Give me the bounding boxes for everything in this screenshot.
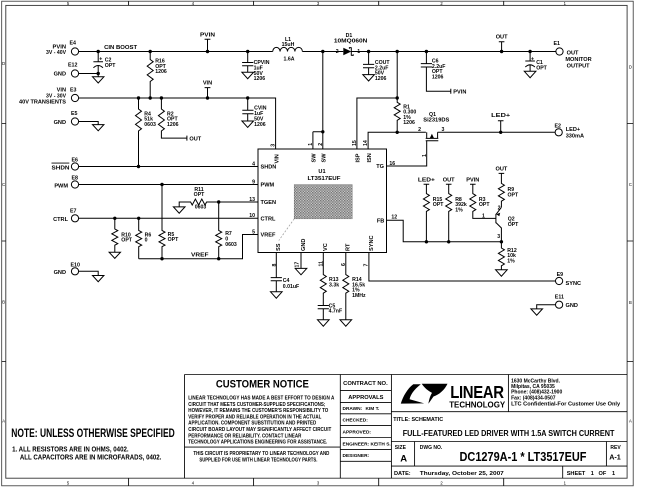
svg-text:PVIN: PVIN bbox=[466, 178, 479, 184]
capacitor C1 bbox=[524, 52, 547, 78]
connector E1 bbox=[554, 41, 592, 69]
svg-text:1206: 1206 bbox=[167, 122, 179, 128]
svg-text:PVIN: PVIN bbox=[200, 32, 215, 38]
node junction R16 bottom bbox=[149, 96, 152, 99]
node junction C6 bbox=[425, 50, 428, 53]
svg-text:GND: GND bbox=[54, 120, 66, 126]
svg-text:CTRL: CTRL bbox=[53, 217, 68, 223]
svg-text:TECHNOLOGY APPLICATIONS ENGINE: TECHNOLOGY APPLICATIONS ENGINEERING FOR … bbox=[188, 440, 328, 446]
svg-text:DRAWN:: DRAWN: bbox=[343, 406, 363, 412]
resistor R11 bbox=[173, 187, 218, 213]
wire VIN rail bbox=[79, 98, 276, 149]
svg-text:HOWEVER, IT REMAINS THE CUSTOM: HOWEVER, IT REMAINS THE CUSTOMER'S RESPO… bbox=[188, 408, 328, 414]
svg-text:LED+: LED+ bbox=[491, 113, 511, 119]
svg-text:SS: SS bbox=[276, 243, 282, 251]
svg-text:OPT: OPT bbox=[194, 192, 205, 198]
flag OUT top bbox=[496, 34, 508, 51]
wire ISN bbox=[368, 132, 426, 149]
op-amp U1 LT3517EUF body bbox=[258, 149, 387, 253]
svg-text:OUTPUT: OUTPUT bbox=[567, 64, 591, 70]
svg-text:A: A bbox=[400, 454, 407, 465]
svg-text:Fax: (408)434-0507: Fax: (408)434-0507 bbox=[511, 395, 556, 401]
wire SYNC bbox=[369, 253, 556, 282]
svg-text:+: + bbox=[531, 56, 534, 62]
inductor L1 bbox=[273, 37, 303, 62]
svg-text:3: 3 bbox=[271, 144, 277, 147]
svg-text:DC1279A-1 * LT3517EUF: DC1279A-1 * LT3517EUF bbox=[460, 449, 587, 464]
svg-text:LED+: LED+ bbox=[418, 178, 436, 184]
transistor Q1 Si2319DS bbox=[387, 112, 450, 166]
svg-text:E11: E11 bbox=[555, 294, 564, 300]
svg-text:1206: 1206 bbox=[432, 74, 444, 80]
svg-text:1.6A: 1.6A bbox=[284, 56, 295, 62]
svg-text:5: 5 bbox=[252, 229, 255, 235]
svg-text:E2: E2 bbox=[555, 123, 562, 129]
svg-text:1MHz: 1MHz bbox=[352, 293, 366, 299]
node junction CPVIN bbox=[246, 50, 249, 53]
capacitor C5 bbox=[318, 303, 343, 326]
svg-text:THIS CIRCUIT IS PROPRIETARY TO: THIS CIRCUIT IS PROPRIETARY TO LINEAR TE… bbox=[193, 451, 329, 457]
svg-text:DESIGNER:: DESIGNER: bbox=[343, 453, 370, 459]
wire SHDN bbox=[79, 166, 258, 168]
resistor R2 bbox=[158, 98, 201, 142]
node junction ISN/R1 bbox=[396, 131, 399, 134]
svg-text:3.3k: 3.3k bbox=[329, 282, 339, 288]
svg-text:SYNC: SYNC bbox=[566, 281, 582, 287]
wire SW node bbox=[313, 52, 323, 150]
wire TGEN bbox=[219, 201, 258, 203]
node junction R16 bbox=[149, 50, 152, 53]
node junction R15/FB bbox=[425, 240, 428, 243]
connector E9 bbox=[556, 272, 582, 287]
svg-text:1206: 1206 bbox=[403, 120, 415, 126]
svg-text:E9: E9 bbox=[557, 272, 564, 278]
svg-text:40V TRANSIENTS: 40V TRANSIENTS bbox=[19, 100, 67, 106]
svg-text:0603: 0603 bbox=[195, 205, 207, 211]
connector E12 bbox=[54, 63, 79, 78]
resistor R1 bbox=[394, 52, 416, 133]
connector E11 bbox=[555, 294, 578, 309]
wire E11 to ground bbox=[531, 305, 556, 315]
svg-text:CTRL: CTRL bbox=[261, 216, 276, 222]
svg-text:B: B bbox=[2, 300, 5, 305]
svg-text:SHDN: SHDN bbox=[261, 165, 277, 171]
svg-text:MONITOR: MONITOR bbox=[565, 57, 591, 63]
svg-text:C: C bbox=[629, 182, 632, 187]
svg-text:E4: E4 bbox=[70, 41, 77, 47]
svg-text:OPT: OPT bbox=[168, 237, 179, 243]
connector E5 bbox=[54, 111, 79, 126]
svg-text:U1: U1 bbox=[318, 169, 325, 175]
wire E10 to ground bbox=[79, 271, 104, 281]
node junction Q2/R12/FB bbox=[500, 240, 503, 243]
node junction SW bbox=[321, 130, 324, 133]
wire VREF net bbox=[139, 235, 258, 259]
svg-text:4.7nF: 4.7nF bbox=[329, 309, 343, 315]
svg-text:8: 8 bbox=[272, 264, 278, 267]
svg-text:A-1: A-1 bbox=[609, 452, 621, 461]
node junction R11/TGEN bbox=[217, 200, 220, 203]
svg-text:CIRCUIT THAT MEETS CUSTOMER-SU: CIRCUIT THAT MEETS CUSTOMER-SUPPLIED SPE… bbox=[188, 402, 325, 408]
contract / approvals column bbox=[340, 381, 391, 461]
node junction C1 bbox=[528, 50, 531, 53]
svg-text:1: 1 bbox=[422, 154, 428, 157]
node junction R7/VREF bbox=[217, 257, 220, 260]
ground below C2 bbox=[93, 74, 104, 84]
node junction R4 bbox=[137, 96, 140, 99]
svg-text:SHDN: SHDN bbox=[52, 165, 70, 171]
svg-text:CONTRACT NO.: CONTRACT NO. bbox=[343, 381, 388, 387]
svg-text:A: A bbox=[2, 418, 5, 423]
svg-text:APPROVED:: APPROVED: bbox=[343, 430, 372, 436]
connector E4 bbox=[46, 41, 79, 56]
svg-text:0603: 0603 bbox=[225, 242, 237, 248]
node junction COUT bbox=[367, 50, 370, 53]
node junction R5/PWM bbox=[160, 183, 163, 186]
svg-text:E5: E5 bbox=[71, 111, 78, 117]
connector E6 bbox=[52, 158, 79, 172]
connector E2 bbox=[555, 123, 585, 139]
svg-text:OPT: OPT bbox=[508, 222, 519, 228]
resistor R14 bbox=[340, 253, 366, 327]
zone ticks left bbox=[2, 124, 6, 362]
wire bbox=[302, 51, 343, 53]
svg-text:VC: VC bbox=[323, 243, 329, 251]
title block outline bbox=[185, 375, 628, 479]
connector E8 bbox=[54, 176, 78, 190]
svg-text:1206: 1206 bbox=[254, 76, 266, 82]
svg-text:CUSTOMER NOTICE: CUSTOMER NOTICE bbox=[216, 379, 309, 391]
capacitor CPVIN bbox=[242, 52, 270, 83]
zone ticks right bbox=[627, 124, 633, 362]
svg-text:CIRCUIT BOARD LAYOUT MAY SIGNI: CIRCUIT BOARD LAYOUT MAY SIGNIFICANTLY A… bbox=[188, 427, 331, 433]
svg-text:B: B bbox=[629, 300, 632, 305]
svg-text:E3: E3 bbox=[70, 88, 77, 94]
svg-text:3V - 40V: 3V - 40V bbox=[46, 50, 67, 56]
node junction R10/CTRL bbox=[113, 217, 116, 220]
svg-text:GND: GND bbox=[301, 239, 307, 251]
resistor R10 bbox=[109, 218, 133, 258]
wire LED+ line bbox=[438, 131, 555, 133]
svg-text:3: 3 bbox=[497, 234, 500, 240]
svg-text:OUT: OUT bbox=[443, 178, 455, 184]
svg-text:CHECKED:: CHECKED: bbox=[343, 418, 369, 424]
svg-text:OF: OF bbox=[599, 471, 607, 477]
connector E10 bbox=[54, 262, 80, 276]
svg-text:VIN: VIN bbox=[274, 154, 280, 163]
svg-text:10MQ060N: 10MQ060N bbox=[334, 39, 368, 45]
zone ticks bottom bbox=[129, 478, 504, 486]
resistor R9 bbox=[495, 167, 519, 208]
svg-text:SW: SW bbox=[312, 153, 318, 163]
svg-text:SW: SW bbox=[321, 153, 327, 163]
svg-text:OPT: OPT bbox=[105, 63, 116, 69]
flag PVIN top bbox=[200, 32, 215, 51]
svg-text:PVIN: PVIN bbox=[453, 89, 466, 95]
svg-text:TG: TG bbox=[376, 164, 384, 170]
svg-text:A: A bbox=[629, 419, 632, 424]
svg-text:2: 2 bbox=[498, 205, 501, 211]
node junction R6/CTRL bbox=[137, 217, 140, 220]
svg-text:Thursday, October 25, 2007: Thursday, October 25, 2007 bbox=[420, 471, 504, 477]
svg-text:LT3517EUF: LT3517EUF bbox=[308, 176, 342, 182]
resistor R6 bbox=[136, 218, 152, 258]
svg-text:OUT: OUT bbox=[189, 136, 201, 142]
wire PWM bbox=[79, 184, 258, 186]
svg-text:NOTE: UNLESS OTHERWISE SPECIFI: NOTE: UNLESS OTHERWISE SPECIFIED bbox=[11, 426, 175, 440]
flag LED+ bbox=[491, 113, 511, 132]
svg-text:TITLE: SCHEMATIC: TITLE: SCHEMATIC bbox=[393, 417, 443, 423]
svg-text:E12: E12 bbox=[68, 63, 77, 69]
svg-text:TECHNOLOGY: TECHNOLOGY bbox=[449, 400, 506, 409]
capacitor COUT bbox=[363, 52, 391, 82]
ground pin 17 bbox=[295, 253, 307, 275]
svg-text:1206: 1206 bbox=[254, 122, 266, 128]
svg-text:SYNC: SYNC bbox=[369, 235, 375, 251]
svg-text:DATE:: DATE: bbox=[394, 471, 411, 477]
node junction E12/C2 bbox=[97, 72, 100, 75]
svg-text:10: 10 bbox=[249, 213, 255, 219]
svg-text:C: C bbox=[2, 182, 5, 187]
svg-text:2: 2 bbox=[336, 49, 339, 55]
svg-text:0.01uF: 0.01uF bbox=[283, 284, 299, 290]
svg-text:VREF: VREF bbox=[191, 253, 209, 259]
svg-text:D: D bbox=[2, 61, 5, 66]
svg-text:SUPPLIED FOR USE WITH LINEAR T: SUPPLIED FOR USE WITH LINEAR TECHNOLOGY … bbox=[199, 458, 318, 464]
svg-text:0603: 0603 bbox=[144, 122, 156, 128]
svg-text:ISN: ISN bbox=[367, 153, 373, 162]
resistor R7 bbox=[216, 202, 237, 259]
svg-text:PWM: PWM bbox=[54, 183, 68, 189]
svg-text:1: 1 bbox=[591, 471, 594, 477]
svg-text:15uH: 15uH bbox=[282, 42, 295, 48]
svg-text:E1: E1 bbox=[554, 41, 561, 47]
resistor R5 bbox=[159, 185, 179, 259]
resistor R4 bbox=[136, 98, 156, 167]
diode D1 bbox=[334, 33, 368, 56]
svg-text:E10: E10 bbox=[71, 262, 80, 268]
connector E7 bbox=[53, 209, 79, 223]
node junction R2 bbox=[160, 96, 163, 99]
node junction R5/VREF bbox=[160, 257, 163, 260]
svg-text:APPLICATION. COMPONENT SUBSTI: APPLICATION. COMPONENT SUBSTITUTION AND … bbox=[188, 421, 316, 427]
wire E5 to ground bbox=[79, 122, 104, 131]
connector E3 bbox=[19, 88, 79, 106]
svg-text:KIM T.: KIM T. bbox=[366, 406, 380, 412]
svg-text:PWM: PWM bbox=[261, 183, 275, 189]
svg-text:9: 9 bbox=[252, 179, 255, 185]
svg-text:OPT: OPT bbox=[508, 192, 519, 198]
svg-text:PERFORMANCE OR RELIABILITY. C: PERFORMANCE OR RELIABILITY. CONTACT LINE… bbox=[188, 433, 301, 439]
svg-text:1%: 1% bbox=[455, 207, 463, 213]
svg-text:3V - 30V: 3V - 30V bbox=[46, 93, 67, 99]
svg-text:330mA: 330mA bbox=[566, 134, 584, 140]
svg-text:CIN BOOST: CIN BOOST bbox=[104, 45, 138, 51]
address block bbox=[511, 378, 620, 407]
title rows bbox=[391, 412, 627, 479]
resistor R13 bbox=[320, 253, 339, 306]
svg-text:GND: GND bbox=[54, 270, 66, 276]
svg-text:LINEAR: LINEAR bbox=[450, 382, 504, 402]
svg-text:ISP: ISP bbox=[356, 153, 362, 162]
node junction LED+ flag bbox=[499, 131, 502, 134]
transistor Q2 bbox=[482, 205, 519, 241]
capacitor C2 bbox=[93, 52, 116, 74]
capacitor CVIN bbox=[242, 98, 267, 128]
node junction R4/SHDN bbox=[137, 165, 140, 168]
resistor R12 bbox=[496, 242, 517, 276]
capacitor C6 bbox=[421, 52, 467, 96]
svg-text:OPT: OPT bbox=[433, 202, 444, 208]
svg-text:FULL-FEATURED LED DRIVER WITH: FULL-FEATURED LED DRIVER WITH 1.5A SWITC… bbox=[403, 428, 615, 438]
node junction OUT flag bbox=[500, 50, 503, 53]
customer notice box bbox=[185, 379, 341, 464]
svg-text:OPT: OPT bbox=[479, 202, 490, 208]
svg-text:17: 17 bbox=[295, 262, 301, 268]
svg-text:E8: E8 bbox=[72, 176, 79, 182]
zone ticks top bbox=[129, 1, 504, 5]
svg-text:2: 2 bbox=[418, 127, 421, 133]
LT logo bbox=[401, 375, 509, 412]
svg-text:12: 12 bbox=[391, 215, 397, 221]
wire E12 bbox=[79, 73, 99, 75]
svg-text:E7: E7 bbox=[70, 209, 77, 215]
resistor R3 bbox=[466, 178, 496, 219]
svg-text:ENGINEER: KEITH S.: ENGINEER: KEITH S. bbox=[343, 441, 391, 447]
svg-text:1: 1 bbox=[482, 214, 485, 220]
svg-text:REV: REV bbox=[610, 445, 621, 451]
svg-text:OUT: OUT bbox=[496, 34, 508, 40]
svg-text:GND: GND bbox=[566, 303, 578, 309]
svg-text:VIN: VIN bbox=[203, 81, 212, 87]
svg-text:OPT: OPT bbox=[536, 66, 547, 72]
svg-text:TGEN: TGEN bbox=[261, 200, 277, 206]
wire top rail left bbox=[79, 51, 273, 53]
wire CTRL bbox=[79, 217, 258, 219]
svg-text:LINEAR TECHNOLOGY HAS MADE A B: LINEAR TECHNOLOGY HAS MADE A BEST EFFORT… bbox=[188, 396, 334, 402]
node junction C2 bbox=[97, 50, 100, 53]
svg-text:APPROVALS: APPROVALS bbox=[348, 395, 383, 401]
resistor R8 bbox=[443, 178, 467, 242]
svg-text:ALL CAPACITORS ARE IN MICROFAR: ALL CAPACITORS ARE IN MICROFARADS, 0402. bbox=[20, 453, 162, 462]
svg-text:1: 1 bbox=[612, 471, 615, 477]
svg-text:13: 13 bbox=[249, 197, 255, 203]
node junction ISP/R1 bbox=[396, 96, 399, 99]
svg-text:SHEET: SHEET bbox=[567, 471, 586, 477]
NOTE block bbox=[11, 426, 175, 462]
svg-text:OUT: OUT bbox=[567, 50, 579, 56]
svg-text:OPT: OPT bbox=[121, 238, 132, 244]
svg-text:LTC Confidential-For Customer: LTC Confidential-For Customer Use Only bbox=[511, 402, 620, 408]
node junction CVIN bbox=[246, 96, 249, 99]
svg-text:1206: 1206 bbox=[155, 69, 167, 75]
resistor R16 bbox=[147, 52, 167, 99]
node junction R1 bbox=[396, 50, 399, 53]
node junction VIN flag bbox=[206, 96, 209, 99]
wire FB bbox=[387, 220, 502, 242]
capacitor C4 bbox=[271, 253, 300, 299]
svg-text:+: + bbox=[99, 57, 102, 63]
svg-text:LED+: LED+ bbox=[566, 127, 581, 133]
svg-text:E6: E6 bbox=[72, 158, 79, 164]
wire ISP bbox=[357, 98, 397, 149]
node junction PVIN flag bbox=[206, 50, 209, 53]
svg-text:SIZE: SIZE bbox=[395, 445, 407, 451]
svg-text:Si2319DS: Si2319DS bbox=[423, 118, 450, 124]
svg-text:FB: FB bbox=[377, 218, 384, 224]
svg-text:0: 0 bbox=[145, 238, 148, 244]
svg-text:DWG NO.: DWG NO. bbox=[420, 445, 443, 451]
svg-text:4: 4 bbox=[252, 161, 255, 167]
svg-text:GND: GND bbox=[54, 72, 66, 78]
svg-text:VREF: VREF bbox=[261, 233, 277, 239]
svg-text:OUT: OUT bbox=[495, 167, 507, 173]
node junction R8/FB bbox=[447, 240, 450, 243]
svg-text:RT: RT bbox=[346, 243, 352, 251]
svg-text:D: D bbox=[629, 64, 632, 69]
svg-text:VERIFY PROPER AND RELIABLE OPE: VERIFY PROPER AND RELIABLE OPERATION IN … bbox=[188, 414, 321, 420]
wire top rail right bbox=[351, 51, 556, 53]
resistor R15 bbox=[418, 178, 444, 242]
svg-text:1206: 1206 bbox=[375, 76, 387, 82]
node junction SW bbox=[321, 50, 324, 53]
svg-text:1%: 1% bbox=[507, 258, 515, 264]
flag VIN bbox=[203, 81, 212, 98]
